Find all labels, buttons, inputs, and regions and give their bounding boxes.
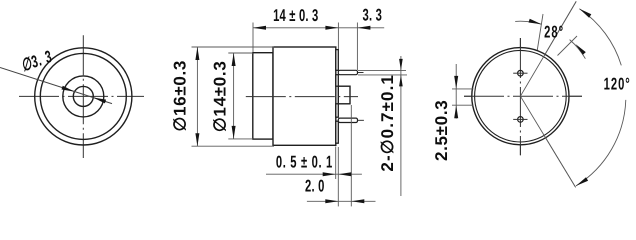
ext line lid face <box>337 23 339 50</box>
label 14 +- 0.3 <box>273 6 318 25</box>
left view vertical center line <box>82 35 84 158</box>
lid rim segment 3 <box>336 104 339 117</box>
side view main body rectangle <box>273 47 336 145</box>
radial line lower leg (120deg) <box>520 96 575 187</box>
phi14 top ext line <box>228 52 253 54</box>
0.5 dimension line <box>266 173 362 175</box>
svg-text:3. 3: 3. 3 <box>363 6 383 25</box>
svg-text:120°: 120° <box>604 75 631 94</box>
phi16 bottom ext line <box>192 145 275 147</box>
top dimension line <box>253 27 384 29</box>
middle view center line <box>246 96 358 98</box>
label 0.5 +- 0.1 <box>276 152 333 171</box>
pin diameter top ext line <box>358 69 406 71</box>
28deg dimension arc right segment <box>570 40 586 59</box>
right view horizontal center line <box>464 95 582 97</box>
svg-text:∅16±0.3: ∅16±0.3 <box>171 60 190 132</box>
0.5 ext line A <box>335 147 337 180</box>
lid rim segment top <box>336 50 339 71</box>
phi3.3 leader dimension line <box>0 68 112 104</box>
radial line R1 (28deg leg) <box>520 1 576 96</box>
redraw center/radials inside circle <box>519 38 521 155</box>
side view flange rectangle <box>253 53 273 139</box>
pin 1 tail <box>358 72 364 74</box>
phi14 dimension line <box>233 53 235 139</box>
left view sound hole circle (phi3.3) <box>73 86 93 106</box>
2.0 dimension line <box>307 200 376 202</box>
28 arc arrow 2 <box>575 44 585 55</box>
120deg dimension arc lower segment <box>576 100 626 186</box>
stub line A 45deg <box>558 36 578 56</box>
label 3.3 <box>363 6 383 25</box>
left view horizontal center line <box>19 95 144 97</box>
stub ext line C <box>537 14 544 55</box>
svg-text:2.5±0.3: 2.5±0.3 <box>432 100 451 162</box>
svg-text:28°: 28° <box>544 23 564 42</box>
svg-text:14 ± 0. 3: 14 ± 0. 3 <box>273 6 318 25</box>
phi14 bottom ext line <box>228 138 253 140</box>
2.5 top ext line <box>452 88 474 90</box>
svg-text:2. 0: 2. 0 <box>305 177 325 196</box>
120deg dimension arc upper segment <box>579 9 621 66</box>
right view vertical center line <box>519 38 521 155</box>
2.5 dimension line <box>455 64 457 119</box>
pin 2 tail <box>358 119 364 121</box>
label phi3.3 <box>19 47 55 75</box>
label 2.0 <box>305 177 325 196</box>
pin 2 bottom terminal <box>338 118 357 122</box>
arrow 14 left <box>253 26 266 30</box>
ext line pin tip <box>356 23 358 71</box>
120 arc bottom arrow <box>576 177 588 186</box>
phi16 top ext line <box>192 46 275 48</box>
svg-text:2-∅0.7±0.1: 2-∅0.7±0.1 <box>378 74 397 172</box>
phi16 dimension line <box>196 47 198 146</box>
label 28deg <box>544 23 564 42</box>
right view rim circle <box>475 50 567 142</box>
pin diameter bottom ext line <box>358 74 407 76</box>
top pin dash <box>513 72 527 74</box>
right view outer circle <box>472 48 569 145</box>
pin diameter dimension line <box>400 56 402 196</box>
left view rim circle <box>40 53 126 139</box>
2.5 bottom ext line <box>452 104 474 106</box>
28deg dimension arc left segment <box>515 21 541 24</box>
bottom pin dash <box>513 118 527 120</box>
2.0 ext line C <box>350 105 352 206</box>
120 arc top arrow <box>579 9 591 18</box>
central boss on right face <box>338 86 350 104</box>
ext line left of 14 dim <box>252 23 254 53</box>
lid rim segment 2 <box>336 75 339 87</box>
bottom pin dot <box>518 117 524 123</box>
28 arc arrow 1 <box>529 19 542 25</box>
label 120deg <box>604 75 631 94</box>
phi3.3 arrowhead lower-right <box>93 98 106 104</box>
top pin dot <box>518 70 524 76</box>
arrow 14 right / 3.3 left <box>325 26 338 30</box>
lid rim segment bottom <box>336 121 339 143</box>
svg-text:∅14±0.3: ∅14±0.3 <box>211 61 230 133</box>
pin 1 top terminal <box>338 70 357 74</box>
left view middle boss circle <box>63 76 104 117</box>
left view outer circle (phi16 body) <box>35 48 132 145</box>
phi3.3 arrowhead upper-left <box>62 86 75 92</box>
svg-text:0. 5 ± 0. 1: 0. 5 ± 0. 1 <box>276 152 333 171</box>
0.5/2.0 shared ext line B <box>337 147 339 206</box>
arrow 3.3 right <box>357 26 370 30</box>
